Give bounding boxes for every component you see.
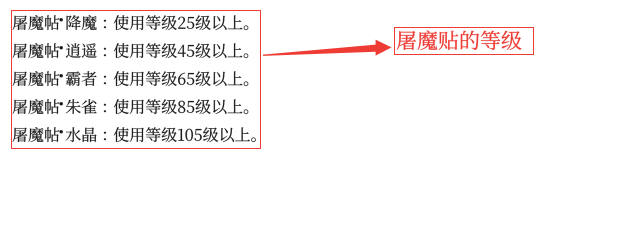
text line 4 bbox=[13, 99, 249, 114]
text line 3 bbox=[13, 71, 249, 86]
text line 1 bbox=[13, 15, 249, 30]
red arrow bbox=[263, 40, 392, 56]
text line 5 bbox=[13, 127, 256, 142]
label box bbox=[395, 28, 534, 55]
red annotation box around list bbox=[12, 11, 261, 149]
label text 屠魔贴的等级 bbox=[397, 31, 522, 50]
text line 2 bbox=[13, 43, 249, 58]
